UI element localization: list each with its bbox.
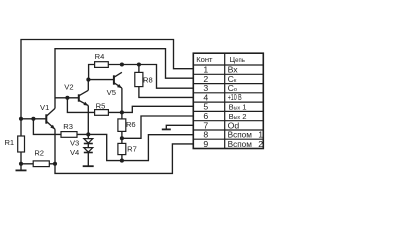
node: V1 base / left rail junction — [19, 117, 23, 121]
node: R7 bottom / pin8 rail junction — [120, 159, 124, 163]
wire: V1 base wire from left rail — [21, 118, 46, 120]
wire: R5 branch from V2 base node, through R5 to pin 5 (Вых 1) — [67, 98, 193, 113]
svg-text:Вспом: Вспом — [228, 139, 252, 149]
svg-text:R6: R6 — [126, 120, 136, 129]
svg-text:R1: R1 — [4, 138, 14, 147]
node: R1 / R2 / ground junction — [19, 162, 23, 166]
svg-text:R3: R3 — [63, 122, 73, 131]
transistor V1 — [40, 103, 55, 129]
svg-text:R5: R5 — [96, 101, 106, 110]
node: R6 / R7 / pin6 junction — [120, 136, 124, 140]
svg-text:9: 9 — [203, 139, 208, 149]
wire: R6/R7 junction to table pin 6 (Вых 2) — [122, 116, 193, 138]
svg-text:R8: R8 — [143, 76, 153, 85]
wire: V1 emitter vertical down to bottom node — [54, 129, 56, 164]
node: R3 / V2 emitter / V3 / pin8 junction — [86, 132, 90, 136]
wire: net pin1 (Вх) left rail: left vertical + top rail to table pin 1 — [21, 40, 193, 171]
resistor R7 — [118, 143, 137, 154]
wire: net pin9 (Вспом 2): bottom rail from R2/V1e node up to table pin 9 — [55, 144, 193, 174]
svg-text:R4: R4 — [95, 52, 105, 61]
node: R3 branch junction — [31, 117, 35, 121]
ground under R1/R2 node — [16, 169, 27, 171]
node: R2 / V1 emitter / pin9 junction — [53, 162, 57, 166]
resistor R2 — [33, 149, 49, 167]
resistor R5 — [95, 101, 109, 115]
wire: R3 branch from V1 base wire — [33, 119, 88, 135]
wire: V2 emitter vertical down to R3/V3 node — [87, 106, 89, 135]
wire: R2 bottom wire from R1 node — [21, 163, 55, 165]
wire: R8 net down to table pin 4 (+10 В) — [139, 65, 193, 98]
wire: net pin3 rail (R4 right / V5 collector / R8 top) to table pin 3 — [89, 65, 194, 89]
node: V5 emitter / R5 / R6 / pin5 junction — [120, 110, 124, 114]
svg-text:R2: R2 — [34, 149, 44, 158]
connector table frame — [193, 53, 263, 148]
wire: pin 7 (Od) stub with chassis ground — [166, 125, 193, 129]
ground at pin 7 — [162, 128, 171, 130]
resistor R1 — [4, 136, 24, 152]
resistor R6 — [118, 119, 136, 131]
resistor R8 — [135, 72, 153, 86]
node: R8 top / rail junction — [137, 62, 141, 66]
wire: V5 base wire — [89, 79, 114, 81]
svg-text:V2: V2 — [64, 83, 73, 92]
resistor R3 — [61, 122, 77, 137]
svg-text:+10 В: +10 В — [228, 94, 242, 102]
wire: net pin8 (Вспом 1): R3/V2e/V3 node down, along bottom, up to table pin 8 — [88, 134, 193, 160]
transistor V2 — [64, 83, 88, 106]
diode V4 — [70, 148, 93, 157]
svg-text:R7: R7 — [127, 144, 137, 153]
wire: V5 emitter vertical through R6, R7 to bottom pin8 rail — [121, 88, 123, 161]
svg-text:V4: V4 — [70, 148, 79, 157]
ground under V4 — [83, 165, 94, 167]
node: V5 collector / rail junction — [120, 62, 124, 66]
resistor R4 — [95, 52, 109, 67]
wire: diode chain V3 V4 down to ground — [87, 134, 89, 166]
node: V2 base / R5 branch junction — [65, 96, 69, 100]
transistor V5 — [107, 72, 122, 97]
wire: net pin2 (Ск) rail from V1 collector to table pin 2 — [55, 49, 193, 109]
diode V3 — [70, 139, 93, 148]
svg-text:Конт: Конт — [196, 55, 213, 64]
wire: V2 collector vertical up to R4/V5 base node — [87, 80, 89, 91]
svg-text:V3: V3 — [70, 139, 79, 148]
svg-text:V5: V5 — [107, 88, 116, 97]
node: V2 collector / R4 / V5 base junction — [86, 78, 90, 82]
wire: V2 base wire from V1 collector vertical — [55, 97, 79, 99]
svg-text:V1: V1 — [40, 103, 49, 112]
svg-text:2: 2 — [258, 139, 263, 149]
